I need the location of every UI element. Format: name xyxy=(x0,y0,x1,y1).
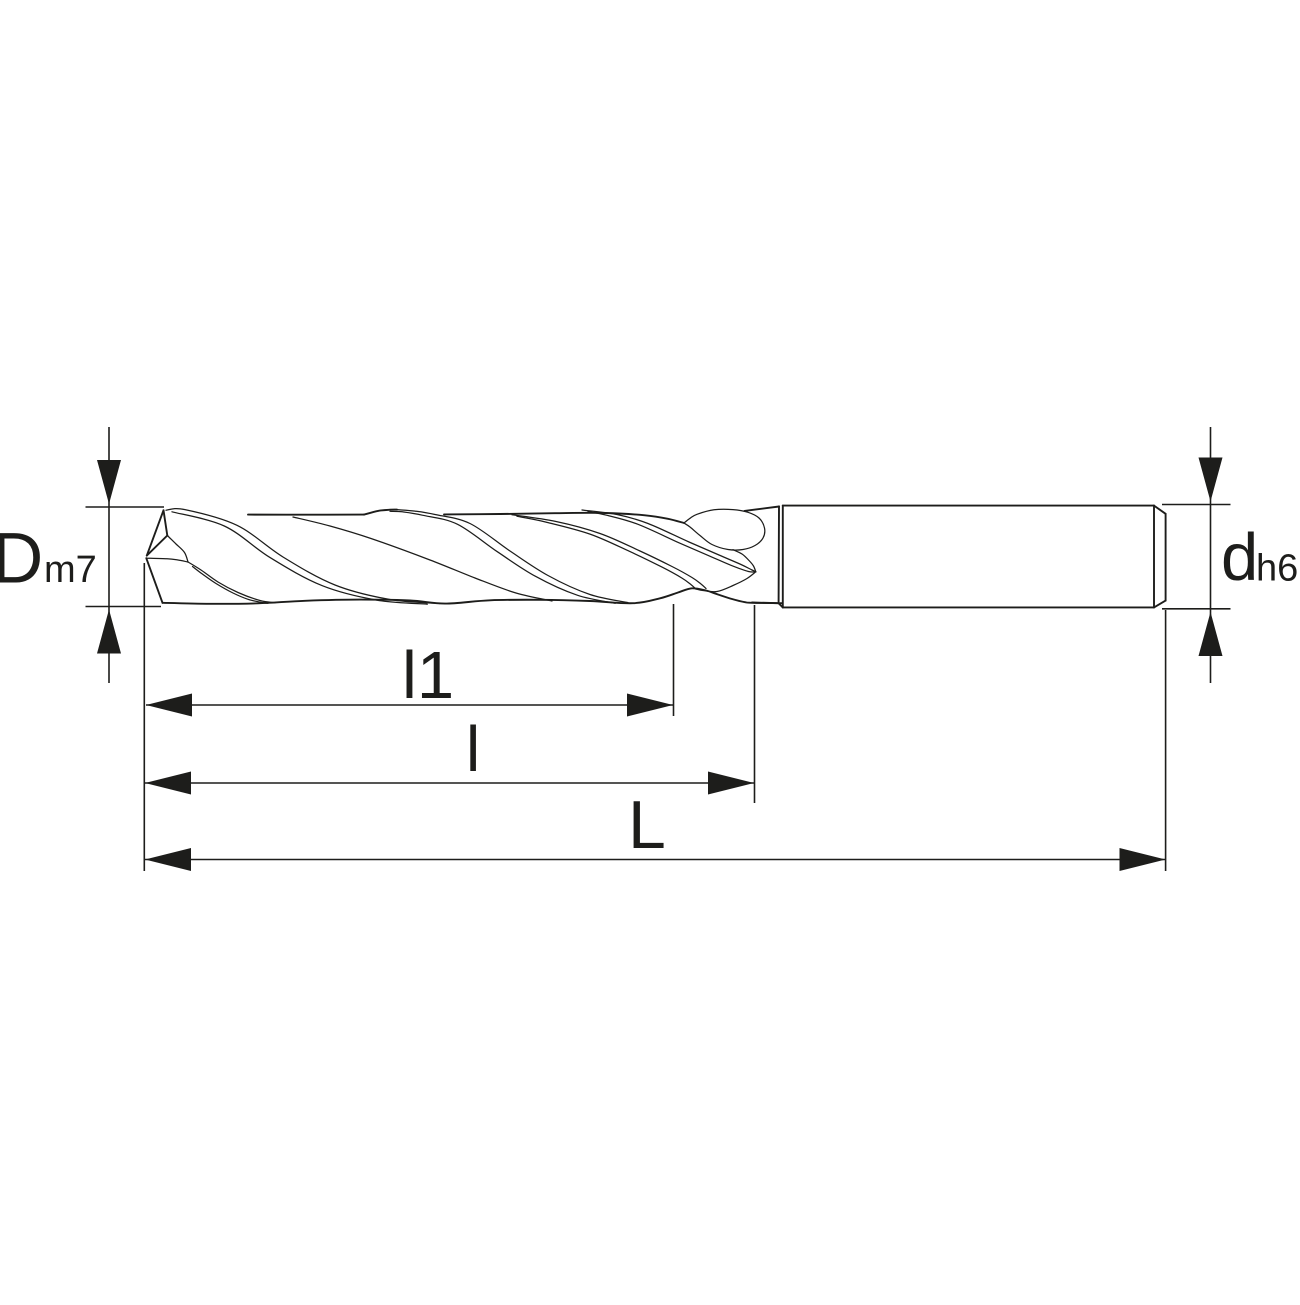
flute runout tongue xyxy=(684,509,765,591)
svg-text:m7: m7 xyxy=(44,549,97,591)
extension line at overall length L xyxy=(1165,610,1167,871)
label D m7 xyxy=(0,520,97,599)
label d h6 xyxy=(1221,520,1298,595)
svg-text:l1: l1 xyxy=(402,638,454,713)
tip land edge curve xyxy=(188,562,275,603)
neck between flutes and shank xyxy=(745,506,783,607)
flute helix band 3 xyxy=(512,515,706,589)
extension line at drill tip xyxy=(143,563,145,871)
drill point chisel-edge curve xyxy=(146,536,188,563)
flute heel line 1 xyxy=(293,517,552,601)
dimension line d (shank diameter) xyxy=(1162,427,1231,683)
extension line at flute length l xyxy=(754,605,756,803)
arrowheads dimension D xyxy=(97,460,121,654)
flute helix band 2 xyxy=(390,510,628,604)
svg-text:D: D xyxy=(0,520,43,599)
arrowheads dimension L xyxy=(145,848,1166,871)
dimension line l xyxy=(145,782,754,784)
arrowheads dimension l1 xyxy=(146,694,673,717)
label L xyxy=(628,787,666,863)
arrowheads dimension l xyxy=(145,772,754,795)
flute helix band 1 xyxy=(166,509,440,605)
drill point (cutting tip) xyxy=(146,510,167,603)
svg-text:h6: h6 xyxy=(1256,548,1298,590)
dimension line L xyxy=(145,859,1165,861)
extension line at flute length l1 xyxy=(673,604,675,716)
label l xyxy=(466,713,480,785)
label l1 xyxy=(402,638,454,713)
svg-text:l: l xyxy=(466,713,480,785)
svg-text:d: d xyxy=(1221,520,1258,595)
drill body top silhouette xyxy=(248,510,684,523)
svg-text:L: L xyxy=(628,787,666,863)
dimension line l1 xyxy=(146,704,673,706)
drill body bottom silhouette xyxy=(163,588,783,604)
shank cylinder xyxy=(783,506,1166,608)
flute helix band 4 xyxy=(582,510,756,572)
dimension line D (drill diameter) xyxy=(86,427,165,683)
arrowheads dimension d xyxy=(1199,458,1223,657)
